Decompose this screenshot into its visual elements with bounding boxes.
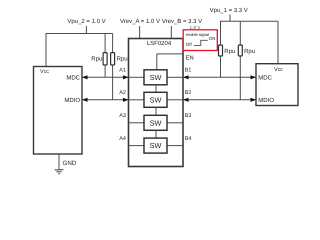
resistor Rpu (pull-up on MDC/A1) bbox=[91, 34, 107, 78]
wire EN internal bbox=[157, 54, 183, 70]
resistor Rpu (pull-up on B1) bbox=[219, 21, 236, 77]
left box (MAC/controller) bbox=[34, 67, 83, 155]
svg-text:Vrev_B = 3.3 V: Vrev_B = 3.3 V bbox=[162, 18, 202, 25]
svg-text:Vpu_2 = 1.0 V: Vpu_2 = 1.0 V bbox=[67, 18, 105, 25]
wire MDIO to A2 (bidirectional) bbox=[82, 98, 129, 102]
svg-text:MDIO: MDIO bbox=[64, 97, 80, 104]
svg-text:B2: B2 bbox=[185, 90, 192, 96]
resistor Rpu (pull-up on B2) bbox=[238, 21, 255, 100]
svg-text:MDC: MDC bbox=[258, 74, 272, 81]
switch SW1 bbox=[129, 70, 184, 85]
svg-text:Vcc: Vcc bbox=[274, 67, 283, 73]
svg-text:B1: B1 bbox=[185, 67, 192, 73]
switch SW2 bbox=[129, 92, 184, 107]
svg-text:enable signal: enable signal bbox=[186, 32, 209, 37]
wire B2 to MDIO (bidirectional) bbox=[183, 98, 256, 102]
svg-text:Off: Off bbox=[186, 42, 193, 47]
wire Vpu_2 rail bbox=[46, 33, 113, 35]
wire Vpu_1 rail bbox=[220, 20, 278, 22]
right box (PHY) bbox=[256, 64, 298, 106]
enable step waveform bbox=[194, 40, 208, 45]
svg-text:SW: SW bbox=[150, 95, 162, 104]
svg-text:B3: B3 bbox=[185, 113, 192, 119]
svg-text:Rpu: Rpu bbox=[91, 56, 102, 63]
annotation box enable signal bbox=[183, 30, 217, 51]
wire Vrev_B stub bbox=[170, 26, 172, 39]
svg-text:SW: SW bbox=[150, 73, 162, 82]
svg-text:MDIO: MDIO bbox=[258, 97, 274, 104]
svg-text:GND: GND bbox=[63, 160, 77, 167]
wire SW1-SW2 link bbox=[155, 85, 157, 93]
svg-text:B4: B4 bbox=[185, 136, 192, 142]
switch SW4 bbox=[129, 138, 184, 153]
wire Vpu_2 drop to left box Vcc bbox=[45, 33, 47, 67]
wire SW2-SW3 link bbox=[155, 107, 157, 115]
svg-text:A1: A1 bbox=[119, 67, 126, 73]
op LSF0204 box U1 bbox=[129, 39, 184, 167]
wire Vrev_A stub bbox=[139, 26, 141, 39]
wire B1 to MDC (bidirectional) bbox=[183, 75, 256, 79]
svg-text:Rpu: Rpu bbox=[224, 48, 235, 55]
svg-text:LSF0204: LSF0204 bbox=[147, 40, 172, 47]
svg-text:ON: ON bbox=[209, 36, 216, 41]
wire SW3-SW4 link bbox=[155, 130, 157, 138]
svg-text:A4: A4 bbox=[119, 136, 126, 142]
ground symbol bbox=[55, 170, 64, 174]
svg-text:EN: EN bbox=[186, 55, 194, 61]
svg-text:SW: SW bbox=[150, 118, 162, 127]
wire GND stub bbox=[58, 154, 60, 170]
resistor Rpu (pull-up on MDIO/A2) bbox=[111, 34, 128, 100]
svg-text:MDC: MDC bbox=[66, 74, 80, 81]
switch SW3 bbox=[129, 115, 184, 130]
svg-text:A2: A2 bbox=[119, 90, 126, 96]
wire MDC to A1 (bidirectional) bbox=[82, 75, 129, 79]
svg-text:Rpu: Rpu bbox=[117, 56, 128, 63]
svg-text:SW: SW bbox=[150, 141, 162, 150]
svg-text:Vpu_1 = 3.3 V: Vpu_1 = 3.3 V bbox=[210, 7, 248, 14]
wire Vpu_2 label stub bbox=[85, 26, 87, 34]
wire Vpu_1 label stub bbox=[229, 15, 231, 22]
svg-text:Rpu: Rpu bbox=[244, 48, 255, 55]
svg-text:A3: A3 bbox=[119, 113, 126, 119]
svg-text:Vcc: Vcc bbox=[40, 69, 49, 75]
svg-text:Vrev_A = 1.0 V: Vrev_A = 1.0 V bbox=[120, 18, 160, 25]
wire Vpu_1 drop to right box Vcc bbox=[277, 21, 279, 63]
